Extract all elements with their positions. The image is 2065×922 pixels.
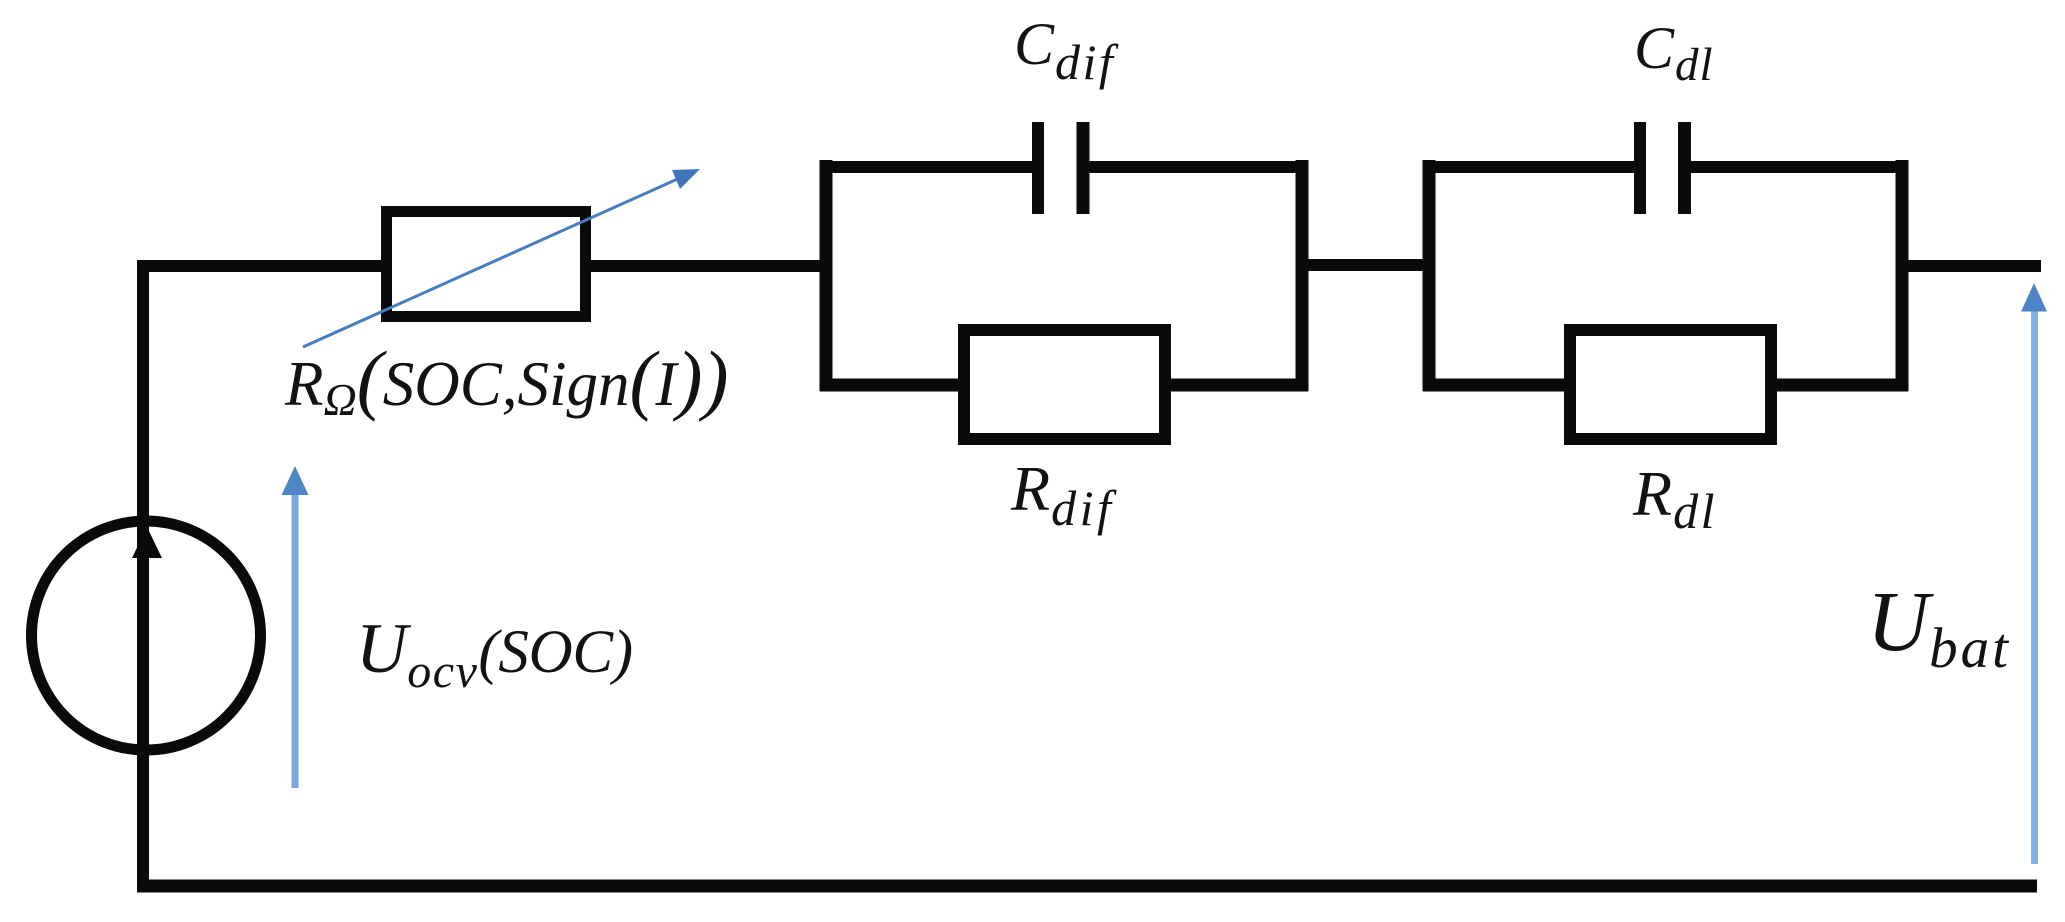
wire loop1 top left xyxy=(820,161,1038,173)
blue arrow through RΩ xyxy=(303,177,682,347)
wire bottom horizontal xyxy=(137,880,2037,893)
blue arrow U_ocv xyxy=(292,494,299,788)
resistor R_dl box xyxy=(1570,330,1771,439)
wire loop1 bottom right xyxy=(1165,379,1308,392)
wire left vertical through source xyxy=(137,260,149,886)
wire between loops xyxy=(1302,259,1433,271)
node loop2 left bar xyxy=(1423,160,1436,391)
node loop1 right bar xyxy=(1296,160,1309,391)
node loop1 left bar xyxy=(820,160,833,391)
wire resistor to loop1 xyxy=(591,260,830,272)
capacitor C_dl left plate xyxy=(1634,122,1646,214)
wire loop1 bottom left xyxy=(820,379,970,392)
wire loop1 top right xyxy=(1083,161,1308,173)
blue arrow U_bat xyxy=(2031,308,2038,864)
wire loop2 top left xyxy=(1423,161,1640,173)
wire loop2 bottom left xyxy=(1423,379,1576,392)
wire loop2 top right xyxy=(1684,161,1908,173)
wire loop2 bottom right xyxy=(1771,379,1908,392)
voltage source U_ocv circle xyxy=(32,521,261,750)
voltage source arrowhead xyxy=(132,527,162,558)
capacitor C_dif right plate xyxy=(1077,122,1090,214)
resistor RΩ variable box xyxy=(387,212,586,317)
capacitor C_dl right plate xyxy=(1678,122,1691,214)
wire output top right xyxy=(1908,260,2041,272)
svg-text:Uocv(SOC): Uocv(SOC) xyxy=(356,610,633,698)
node loop2 right bar xyxy=(1896,160,1909,391)
capacitor C_dif left plate xyxy=(1032,122,1044,214)
resistor R_dif box xyxy=(964,330,1165,439)
wire top left horizontal xyxy=(137,260,388,272)
